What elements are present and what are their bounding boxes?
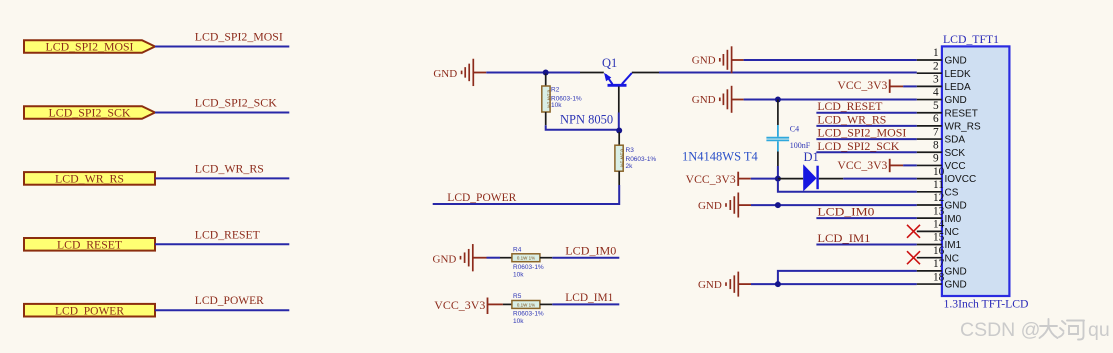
svg-text:GND: GND: [692, 55, 716, 67]
port LCD_WR_RS: [24, 172, 155, 185]
svg-text:17: 17: [933, 258, 945, 270]
diode D1: [803, 164, 817, 191]
wire pin17 to pin18 net: [778, 271, 917, 284]
pin 16 NC: [917, 245, 959, 264]
svg-text:qu: qu: [1088, 319, 1110, 341]
ground GND (pin18): [698, 272, 751, 297]
wire net LCD_RESET to pin5: [816, 112, 916, 114]
power port VCC_3V3 (pin10/D1): [686, 172, 751, 186]
pin 12 GND: [917, 192, 967, 211]
svg-text:R2: R2: [551, 87, 560, 94]
svg-text:R0603-1%: R0603-1%: [513, 264, 544, 271]
svg-text:15: 15: [933, 232, 945, 244]
svg-text:NPN 8050: NPN 8050: [560, 113, 613, 127]
junction at R2 top: [543, 70, 549, 76]
capacitor C4: [766, 100, 789, 167]
svg-text:CSDN @: CSDN @: [960, 319, 1040, 341]
wire net LCD_IM0 to pin13: [816, 217, 916, 219]
power port VCC_3V3 (R5): [434, 298, 503, 315]
pin 8 SCK: [917, 139, 966, 158]
R4 labels: [513, 247, 544, 279]
pin 3 LEDA: [917, 74, 971, 93]
svg-text:LCD_WR_RS: LCD_WR_RS: [55, 174, 124, 186]
svg-text:LCD_RESET: LCD_RESET: [57, 240, 122, 252]
svg-text:LCD_POWER: LCD_POWER: [447, 192, 516, 204]
wire VCC to pin9: [903, 164, 917, 166]
svg-text:12: 12: [933, 192, 945, 204]
svg-text:GND: GND: [692, 94, 716, 106]
svg-text:NC: NC: [945, 227, 959, 238]
wire net LCD_POWER: [155, 309, 289, 311]
svg-text:GND: GND: [945, 280, 967, 291]
svg-text:16: 16: [933, 245, 945, 257]
svg-text:GND: GND: [945, 95, 967, 106]
svg-text:3: 3: [933, 74, 939, 86]
svg-text:LEDK: LEDK: [945, 69, 971, 80]
svg-text:1.3Inch TFT-LCD: 1.3Inch TFT-LCD: [944, 297, 1029, 311]
pin 14 NC: [917, 219, 959, 238]
pin 10 IOVCC: [917, 166, 976, 185]
pin 9 VCC: [917, 153, 966, 172]
svg-text:LEDA: LEDA: [945, 82, 971, 93]
port LCD_SPI2_SCK: [24, 106, 155, 119]
svg-text:100nF: 100nF: [790, 141, 811, 150]
watermark CSDN: [960, 319, 1110, 341]
wire net LCD_WR_RS to pin6: [816, 125, 916, 127]
pin 17 GND: [917, 258, 967, 277]
wire Q1 base lead: [618, 87, 620, 113]
wire VCC to pin3: [903, 85, 917, 87]
pin 4 GND: [917, 87, 967, 106]
wire net LCD_WR_RS: [155, 177, 289, 179]
svg-text:Q1: Q1: [602, 56, 617, 70]
svg-text:R3: R3: [626, 147, 635, 154]
svg-text:18: 18: [933, 271, 945, 283]
svg-text:2: 2: [933, 60, 939, 72]
junction D1 anode: [775, 176, 781, 182]
port LCD_SPI2_MOSI: [24, 40, 155, 53]
svg-text:GND: GND: [945, 266, 967, 277]
pin 18 GND: [917, 271, 967, 290]
transistor Q1: [604, 73, 632, 86]
svg-text:LCD_TFT1: LCD_TFT1: [943, 32, 999, 46]
svg-text:2k: 2k: [626, 163, 634, 170]
svg-text:10: 10: [933, 166, 945, 178]
svg-text:LCD_IM0: LCD_IM0: [817, 207, 874, 219]
pin 11 CS: [917, 179, 959, 198]
svg-text:5: 5: [933, 100, 939, 112]
wire net LCD_SPI2_SCK to pin8: [816, 151, 916, 153]
svg-text:VCC_3V3: VCC_3V3: [686, 174, 736, 186]
wire VCC to R5: [503, 303, 512, 305]
pin 6 WR_RS: [917, 113, 981, 132]
svg-text:7: 7: [933, 126, 939, 138]
svg-text:CS: CS: [945, 187, 959, 198]
svg-text:LCD_IM1: LCD_IM1: [817, 233, 870, 245]
svg-text:LCD_WR_RS: LCD_WR_RS: [817, 114, 886, 126]
resistor R4: [512, 254, 540, 262]
ground GND (Q1 emitter net): [433, 59, 486, 86]
pin 2 LEDK: [917, 60, 971, 79]
wire net LCD_SPI2_SCK: [155, 112, 289, 114]
svg-text:RESET: RESET: [945, 108, 978, 119]
svg-text:D1: D1: [804, 150, 819, 164]
ground GND (pin12): [698, 193, 751, 218]
svg-text:NC: NC: [945, 253, 959, 264]
ground GND (pin4): [692, 86, 744, 113]
wire GND to pin1: [744, 59, 917, 61]
svg-text:GND: GND: [945, 56, 967, 67]
svg-text:10k: 10k: [513, 318, 524, 325]
resistor R5: [512, 301, 540, 309]
svg-text:LCD_IM0: LCD_IM0: [565, 245, 616, 257]
svg-text:SCK: SCK: [945, 148, 966, 159]
svg-text:13: 13: [933, 205, 945, 217]
svg-text:LCD_SPI2_SCK: LCD_SPI2_SCK: [49, 108, 132, 120]
svg-text:LCD_RESET: LCD_RESET: [817, 101, 882, 113]
wire GND to R4: [487, 257, 501, 259]
wire net LCD_IM1 to pin15: [816, 244, 916, 246]
pin 1 GND: [917, 47, 967, 66]
svg-text:VCC_3V3: VCC_3V3: [837, 160, 887, 172]
svg-text:LCD_SPI2_MOSI: LCD_SPI2_MOSI: [46, 42, 134, 54]
wire net LCD_SPI2_MOSI to pin7: [816, 138, 916, 140]
svg-text:R5: R5: [513, 293, 522, 300]
wire Q1 collector to pin2: [632, 72, 659, 74]
wire R5 to net LCD_IM1: [540, 303, 552, 305]
svg-text:IM1: IM1: [945, 240, 962, 251]
svg-text:WR_RS: WR_RS: [945, 122, 981, 133]
svg-text:LCD_IM1: LCD_IM1: [565, 292, 613, 304]
pin 15 IM1: [917, 232, 962, 251]
svg-text:GND: GND: [698, 279, 722, 291]
svg-text:8: 8: [933, 139, 939, 151]
pin 5 RESET: [917, 100, 978, 119]
wire GND to Q1 emitter: [486, 72, 580, 74]
wire GND to pin12: [751, 204, 917, 206]
C4 labels: [790, 124, 811, 150]
wire net LCD_RESET: [155, 243, 289, 245]
svg-text:LCD_SPI2_SCK: LCD_SPI2_SCK: [195, 98, 278, 110]
svg-text:LCD_WR_RS: LCD_WR_RS: [195, 163, 264, 175]
svg-text:IOVCC: IOVCC: [945, 174, 977, 185]
svg-text:6: 6: [933, 113, 939, 125]
svg-text:10k: 10k: [513, 272, 524, 279]
R3 labels: [626, 147, 657, 170]
svg-text:VCC: VCC: [945, 161, 966, 172]
no-connect X pin16: [907, 251, 920, 264]
svg-text:11: 11: [933, 179, 944, 191]
svg-text:LCD_POWER: LCD_POWER: [195, 295, 264, 307]
svg-text:1: 1: [933, 47, 939, 59]
wire GND to pin18: [751, 283, 917, 285]
svg-text:SDA: SDA: [945, 135, 966, 146]
svg-text:LCD_POWER: LCD_POWER: [55, 305, 124, 317]
svg-text:LCD_RESET: LCD_RESET: [195, 229, 260, 241]
svg-text:IM0: IM0: [945, 214, 962, 225]
junction pin18: [775, 281, 781, 287]
wire VCC to D1 anode: [751, 178, 778, 180]
svg-text:GND: GND: [433, 68, 457, 80]
ground GND (pin1): [692, 46, 744, 73]
svg-text:C4: C4: [790, 124, 799, 133]
IC U1 LCD_TFT1 body: [942, 46, 1010, 296]
wire VCC branch to pin11: [778, 181, 917, 192]
junction base/R2/R3: [616, 128, 622, 134]
svg-text:9: 9: [933, 153, 939, 165]
pin 13 IM0: [917, 205, 962, 224]
svg-text:R0603-1%: R0603-1%: [513, 311, 544, 318]
svg-text:LCD_SPI2_SCK: LCD_SPI2_SCK: [817, 141, 900, 153]
svg-text:R4: R4: [513, 247, 522, 254]
wire net LCD_SPI2_MOSI: [155, 46, 289, 48]
svg-text:14: 14: [933, 219, 945, 231]
pin 7 SDA: [917, 126, 966, 145]
wire R2 bottom to base node: [546, 125, 620, 130]
svg-text:GND: GND: [433, 253, 457, 265]
wire GND to pin4: [744, 99, 917, 101]
no-connect X pin14: [907, 225, 920, 238]
wire D1 cathode to pin10: [819, 178, 844, 180]
svg-text:4: 4: [933, 87, 939, 99]
svg-text:0.1W 1%: 0.1W 1%: [517, 302, 535, 307]
svg-text:0.1W 1%: 0.1W 1%: [517, 256, 535, 261]
svg-text:VCC_3V3: VCC_3V3: [434, 300, 485, 312]
R5 labels: [513, 293, 544, 325]
wire R3 to LCD_POWER: [433, 185, 620, 204]
port LCD_RESET: [24, 238, 155, 251]
svg-text:0.1W 1%: 0.1W 1%: [620, 149, 625, 167]
resistor R3: [615, 132, 625, 185]
svg-text:GND: GND: [698, 200, 722, 212]
wire R4 to net LCD_IM0: [540, 257, 552, 259]
resistor R2: [542, 74, 552, 126]
power port VCC_3V3 (pin3): [837, 79, 903, 93]
port LCD_POWER: [24, 304, 155, 317]
svg-text:GND: GND: [945, 201, 967, 212]
svg-text:LCD_SPI2_MOSI: LCD_SPI2_MOSI: [817, 128, 906, 140]
power port VCC_3V3 (pin9): [837, 159, 903, 172]
svg-text:LCD_SPI2_MOSI: LCD_SPI2_MOSI: [195, 32, 283, 44]
svg-text:VCC_3V3: VCC_3V3: [837, 80, 887, 92]
junction pin12: [775, 202, 781, 208]
R2 labels: [551, 87, 582, 110]
ground GND (R4): [433, 244, 487, 271]
junction C4 top: [775, 97, 781, 103]
svg-text:1N4148WS T4: 1N4148WS T4: [682, 150, 759, 164]
svg-text:10k: 10k: [551, 102, 562, 109]
